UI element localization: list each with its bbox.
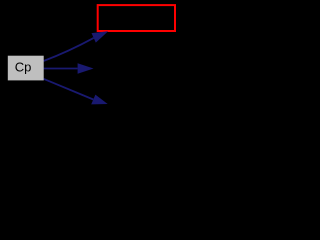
node Cp — [8, 56, 44, 81]
wire: middle edge from Cp — [44, 63, 94, 73]
wire: bottom edge from Cp — [44, 79, 108, 105]
wire: edge from Cp to red node — [44, 31, 109, 61]
node: red highlighted box (top right) — [98, 5, 175, 31]
svg-text:Cp: Cp — [15, 59, 32, 74]
